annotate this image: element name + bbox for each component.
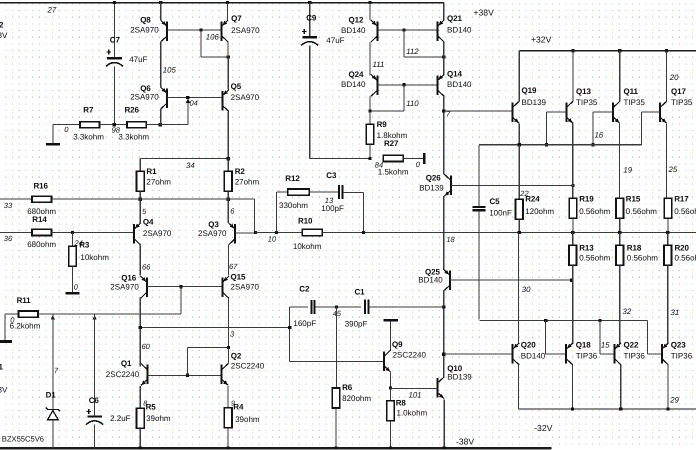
wire Q2 CB box: [187, 348, 189, 376]
svg-text:0.56ohm: 0.56ohm: [675, 254, 696, 263]
transistor Q19 (BD139 NPN): [518, 51, 520, 102]
svg-text:33: 33: [4, 201, 13, 210]
svg-text:R6: R6: [342, 383, 353, 392]
svg-text:106: 106: [206, 33, 220, 42]
wire node line corner down to Q3 base node: [253, 199, 255, 232]
wire node 106 box: [200, 30, 202, 57]
svg-text:Q26: Q26: [426, 174, 441, 183]
junction Q8Q7 base: [200, 29, 203, 32]
junction rail C7: [113, 1, 116, 4]
svg-text:0.56ohm: 0.56ohm: [674, 207, 696, 216]
resistor R11: [5, 313, 18, 315]
svg-text:R2: R2: [235, 167, 246, 176]
wire Q1 emitter to R5: [139, 386, 141, 409]
svg-text:101: 101: [409, 390, 422, 399]
svg-text:R5: R5: [146, 403, 157, 412]
junction Q26 base at R19: [571, 184, 574, 187]
svg-text:R27: R27: [384, 139, 399, 148]
svg-text:R8: R8: [396, 398, 407, 407]
resistor R15: [616, 198, 624, 218]
wire top base bus: [479, 144, 641, 146]
wire bottom base bus: [480, 320, 648, 322]
svg-text:27: 27: [47, 5, 57, 14]
resistor R9: [369, 111, 371, 124]
transistor Q8 (2SA970 PNP): [160, 3, 162, 21]
svg-text:25: 25: [668, 165, 678, 174]
svg-text:BD140: BD140: [341, 80, 366, 89]
junction C1 right: [442, 306, 445, 309]
transistor Q3 (2SA970 PNP): [227, 199, 229, 223]
svg-text:2SA970: 2SA970: [130, 26, 159, 35]
junction node 7: [442, 109, 445, 112]
svg-text:Q2: Q2: [231, 351, 242, 360]
svg-text:8V: 8V: [0, 31, 8, 40]
resistor R24: [518, 145, 520, 200]
wire node45 to R6: [335, 307, 337, 388]
svg-text:TIP36: TIP36: [624, 351, 646, 360]
svg-text:39ohm: 39ohm: [146, 414, 171, 423]
wire Q8 base to Q7 base: [167, 29, 221, 31]
svg-text:C9: C9: [306, 14, 317, 23]
wire Q24 base to Q14 base: [378, 84, 438, 86]
svg-text:BD140: BD140: [418, 276, 443, 285]
junction R4 rail: [227, 446, 230, 449]
wire R14 to Q4 base: [52, 231, 135, 233]
svg-text:16: 16: [595, 131, 604, 140]
svg-text:160pF: 160pF: [293, 319, 316, 328]
svg-text:Q18: Q18: [576, 341, 591, 350]
resistor R7: [80, 122, 100, 128]
junction -32V Q18: [571, 407, 574, 410]
svg-text:27ohm: 27ohm: [146, 178, 171, 187]
wire Q26 emitter to Q25 emitter: [443, 196, 445, 269]
junction C7 bottom: [113, 123, 116, 126]
resistor R14: [0, 231, 32, 233]
wire Q18 collector to -32V: [571, 365, 573, 409]
wire node 111 Q12-Q24: [369, 42, 371, 76]
wire C1 right to node18: [369, 306, 444, 308]
wire Q26 base line: [451, 184, 573, 186]
svg-text:TIP35: TIP35: [671, 98, 693, 107]
svg-text:Q11: Q11: [624, 87, 639, 96]
transistor Q16 (2SA970 PNP): [141, 276, 148, 298]
junction R6 rail: [334, 446, 337, 449]
svg-text:C6: C6: [89, 396, 100, 405]
junction Q2 collector box: [227, 346, 230, 349]
svg-text:BD140: BD140: [447, 26, 472, 35]
transistor Q25 (BD140 PNP): [443, 269, 450, 291]
junction node 04 left: [159, 123, 162, 126]
junction output R17R20: [666, 231, 669, 234]
wire Q13 emitter down to R19: [572, 123, 574, 198]
svg-text:330ohm: 330ohm: [279, 201, 308, 210]
capacitor C9: [309, 3, 311, 37]
junction output R19R13: [571, 231, 574, 234]
wire node 34: [139, 159, 141, 172]
junction R8 rail: [389, 446, 392, 449]
junction node60 at C2: [288, 326, 291, 329]
svg-text:39ohm: 39ohm: [235, 415, 260, 424]
junction rail Q11: [618, 49, 621, 52]
junction arrow node 04: [186, 99, 190, 104]
svg-text:Q9: Q9: [392, 340, 403, 349]
svg-text:820ohm: 820ohm: [342, 394, 371, 403]
transistor Q11 (TIP35 NPN): [619, 51, 621, 102]
svg-text:C2: C2: [299, 284, 310, 293]
resistor R1: [137, 171, 145, 191]
ground at R7: [46, 143, 60, 146]
svg-text:10kohm: 10kohm: [80, 253, 109, 262]
wire Q3 base to output node: [235, 232, 255, 234]
transistor Q22 (TIP36 PNP): [615, 343, 622, 365]
wire Q1 base to Q2 base: [148, 374, 222, 376]
svg-text:R10: R10: [298, 216, 313, 225]
wire Q16 base to Q15 base: [147, 286, 222, 288]
wire Q9 emitter down: [390, 373, 392, 388]
svg-text:+32V: +32V: [531, 35, 552, 45]
svg-text:R18: R18: [627, 244, 642, 253]
junction Q1Q2 base: [186, 374, 189, 377]
wire Q11 base stub: [593, 111, 613, 113]
resistor R19: [569, 198, 577, 218]
junction R12 left: [275, 231, 278, 234]
svg-text:R19: R19: [579, 195, 594, 204]
ground at input: [0, 340, 12, 343]
svg-text:112: 112: [406, 47, 419, 56]
svg-text:R15: R15: [626, 195, 641, 204]
wire +38V top rail: [0, 2, 444, 4]
transistor Q2 (2SC2240 NPN): [228, 348, 230, 364]
wire input ground: [4, 314, 6, 340]
svg-text:0.56ohm: 0.56ohm: [579, 254, 610, 263]
svg-text:R14: R14: [32, 215, 47, 224]
wire node 04 box: [160, 124, 188, 126]
svg-text:TIP36: TIP36: [576, 351, 598, 360]
transistor Q1 (2SC2240 NPN): [141, 364, 148, 386]
svg-text:Q1: Q1: [121, 359, 132, 368]
svg-text:47uF: 47uF: [129, 55, 147, 64]
svg-text:31: 31: [671, 308, 680, 317]
resistor R2: [227, 159, 229, 172]
junction node60 Q16: [139, 326, 142, 329]
svg-text:34: 34: [186, 161, 195, 170]
transistor Q15 (2SA970 PNP): [222, 276, 229, 298]
svg-text:20: 20: [669, 73, 679, 82]
svg-text:R9: R9: [377, 120, 388, 129]
wire driver node to Q20 base: [444, 353, 513, 355]
junction rail Q17: [665, 49, 668, 52]
wire R17 bottom: [667, 218, 669, 232]
resistor R4: [224, 408, 232, 428]
resistor R18: [619, 233, 621, 246]
svg-text:32: 32: [623, 307, 632, 316]
wire R11 node corner up: [180, 287, 182, 314]
port terminal 0 at R27: [423, 153, 425, 164]
svg-text:-38V: -38V: [456, 436, 474, 446]
junction R11 node at base: [179, 285, 182, 288]
svg-text:Q8: Q8: [140, 16, 151, 25]
wire Q17 base corner: [641, 111, 660, 113]
wire Q9 base: [290, 361, 384, 363]
wire port to Q9 collector: [390, 321, 392, 350]
resistor R27: [383, 155, 403, 161]
wire Q19 emitter to bus: [518, 123, 520, 144]
junction rail Q8: [159, 1, 162, 4]
svg-text:R11: R11: [17, 296, 32, 305]
junction R9 top: [368, 109, 371, 112]
svg-text:110: 110: [406, 99, 419, 108]
junction Q12Q21 base: [402, 29, 405, 32]
transistor Q5 (2SA970 PNP): [227, 57, 229, 90]
wire Q10 emitter to rail: [443, 399, 445, 448]
svg-text:Q22: Q22: [624, 341, 639, 350]
junction Q18 base bus: [544, 319, 547, 322]
wire Q23 base corner: [646, 321, 648, 354]
svg-text:105: 105: [163, 66, 177, 75]
svg-text:Q5: Q5: [231, 82, 242, 91]
junction -32V Q22: [619, 407, 622, 410]
capacitor C2: [290, 306, 309, 308]
transistor Q20 (BD140 PNP): [513, 343, 520, 365]
junction node34 Q5: [227, 157, 230, 160]
svg-text:R1: R1: [146, 167, 157, 176]
svg-text:66: 66: [142, 262, 151, 271]
svg-text:390pF: 390pF: [345, 319, 368, 328]
wire -38V bottom rail: [0, 447, 551, 450]
wire node 60 horizontal: [140, 327, 289, 329]
svg-text:30: 30: [522, 285, 531, 294]
svg-text:Q23: Q23: [671, 341, 686, 350]
svg-text:R17: R17: [674, 195, 689, 204]
capacitor C7: [114, 3, 116, 58]
junction Q11 base bus: [591, 143, 594, 146]
resistor R3: [72, 232, 74, 246]
svg-text:2SC2240: 2SC2240: [393, 350, 427, 359]
svg-text:Q21: Q21: [447, 14, 462, 23]
svg-text:TIP35: TIP35: [624, 98, 646, 107]
wire R7-C7-R26: [99, 124, 127, 126]
junction R5 rail: [139, 446, 142, 449]
svg-text:Q24: Q24: [349, 70, 364, 79]
capacitor C6: [94, 314, 96, 415]
junction Q3 base feedback: [254, 231, 257, 234]
resistor R17: [664, 198, 672, 218]
wire R15 bottom: [619, 218, 621, 232]
wire Q2 emitter to R4: [227, 386, 229, 408]
resistor R20: [667, 233, 669, 246]
transistor Q17 (TIP35 NPN): [666, 51, 668, 102]
svg-text:R7: R7: [83, 105, 94, 114]
wire Q20 emitter from output: [518, 233, 520, 343]
svg-text:1.0kohm: 1.0kohm: [397, 408, 428, 417]
svg-text:BD139: BD139: [447, 373, 472, 382]
wire Q12 base to Q21 base: [378, 29, 438, 31]
junction R3 top: [71, 231, 74, 234]
wire C3 down to output line: [362, 193, 364, 233]
svg-text:Q7: Q7: [231, 14, 242, 23]
svg-text:10kohm: 10kohm: [293, 242, 322, 251]
transistor Q18 (TIP36 PNP): [566, 343, 573, 365]
svg-text:120ohm: 120ohm: [525, 207, 554, 216]
svg-text:29: 29: [669, 396, 679, 405]
svg-text:2SA970: 2SA970: [231, 26, 260, 35]
svg-text:Q15: Q15: [231, 273, 246, 282]
wire Q25 base line: [450, 279, 572, 281]
svg-text:8V: 8V: [0, 385, 8, 394]
svg-text:Q19: Q19: [522, 86, 537, 95]
svg-text:C7: C7: [110, 36, 121, 45]
junction Q21 collector node: [442, 55, 445, 58]
svg-text:TIP35: TIP35: [576, 98, 598, 107]
svg-text:3.3kohm: 3.3kohm: [118, 133, 149, 142]
svg-text:0.56ohm: 0.56ohm: [626, 207, 657, 216]
junction rail Q7: [226, 1, 229, 4]
svg-text:+38V: +38V: [474, 7, 495, 17]
svg-text:2SA970: 2SA970: [130, 93, 159, 102]
resistor R5: [137, 408, 145, 428]
transistor Q23 (TIP36 PNP): [662, 343, 669, 365]
transistor Q9 (2SC2240 NPN): [384, 350, 391, 372]
wire Q11 emitter down to R15: [619, 123, 621, 198]
junction R1 bottom node: [139, 198, 142, 201]
svg-text:680ohm: 680ohm: [27, 240, 56, 249]
wire Q20 collector to -32V: [518, 365, 520, 409]
svg-text:Q17: Q17: [671, 87, 686, 96]
svg-text:BZX55C5V6: BZX55C5V6: [2, 434, 44, 443]
svg-text:Q4: Q4: [143, 218, 154, 227]
junction rail Q12: [368, 1, 371, 4]
junction R9 bottom: [368, 157, 371, 160]
wire Q25 collector down: [443, 291, 445, 377]
resistor R6: [332, 388, 340, 408]
svg-text:BD140: BD140: [521, 351, 546, 360]
svg-text:R26: R26: [125, 105, 140, 114]
junction Q9 emitter R8: [389, 386, 392, 389]
wire R7 ground stub: [53, 124, 80, 126]
svg-text:36: 36: [4, 234, 13, 243]
wire C9 corner to R27 node: [310, 157, 370, 159]
svg-text:67: 67: [229, 262, 238, 271]
junction Q10 emitter rail: [443, 446, 446, 449]
svg-text:100nF: 100nF: [489, 209, 512, 218]
transistor Q13 (TIP35 NPN): [572, 51, 574, 102]
junction Q19 emitter bus: [518, 143, 521, 146]
resistor R16: [0, 198, 32, 200]
svg-text:R12: R12: [285, 174, 300, 183]
svg-text:R3: R3: [79, 241, 90, 250]
svg-text:0.56ohm: 0.56ohm: [627, 254, 658, 263]
transistor Q12 (BD140 PNP): [369, 3, 371, 21]
svg-text:45: 45: [333, 309, 342, 318]
svg-text:-32V: -32V: [534, 423, 552, 433]
junction output R15R18: [618, 231, 621, 234]
svg-text:BD140: BD140: [447, 80, 472, 89]
svg-text:47uF: 47uF: [326, 36, 344, 45]
wire Q23 collector to -32V: [667, 365, 669, 409]
resistor R12: [276, 192, 278, 232]
transistor Q21 (BD140 PNP): [443, 3, 445, 21]
junction -32V Q23: [666, 407, 669, 410]
wire node 7 to Q19 base: [444, 110, 513, 112]
junction Q7 collector node: [227, 55, 230, 58]
svg-text:R13: R13: [579, 244, 594, 253]
zener diode D1: [52, 314, 54, 409]
junction driver node Q20 base: [442, 353, 445, 356]
junction Q24Q14 base: [402, 83, 405, 86]
svg-text:C3: C3: [326, 171, 337, 180]
svg-text:0.56ohm: 0.56ohm: [579, 207, 610, 216]
transistor Q26 (BD139 NPN): [444, 174, 451, 196]
svg-text:10: 10: [268, 234, 277, 243]
svg-text:100pF: 100pF: [321, 204, 344, 213]
wire Q17 emitter down to R17: [666, 123, 668, 198]
svg-text:111: 111: [373, 60, 385, 69]
svg-text:D1: D1: [46, 390, 57, 399]
junction output R24: [518, 231, 521, 234]
svg-text:6.2kohm: 6.2kohm: [10, 322, 41, 331]
wire Q6 base to Q5 base: [167, 97, 222, 99]
wire C2-C1 link: [315, 306, 361, 308]
svg-text:18: 18: [446, 235, 455, 244]
svg-text:R4: R4: [233, 402, 244, 411]
svg-text:BD140: BD140: [341, 26, 366, 35]
svg-text:R24: R24: [525, 195, 540, 204]
junction node 45: [335, 306, 338, 309]
svg-text:R16: R16: [34, 182, 49, 191]
resistor R8: [389, 388, 391, 401]
wire R26 to Q6 collector node: [146, 124, 160, 126]
wire output feedback line left: [256, 232, 303, 234]
transistor Q14 (BD140 PNP): [443, 57, 445, 76]
svg-text:Q3: Q3: [208, 220, 219, 229]
svg-text:2SA970: 2SA970: [110, 283, 139, 292]
wire R27 to port: [404, 157, 424, 159]
svg-text:1.5kohm: 1.5kohm: [378, 167, 409, 176]
svg-text:2SA970: 2SA970: [198, 229, 227, 238]
svg-text:R20: R20: [675, 244, 690, 253]
transistor Q6 (2SA970 PNP): [161, 87, 168, 109]
svg-text:3.3kohm: 3.3kohm: [73, 133, 104, 142]
svg-text:19: 19: [623, 165, 632, 174]
junction Q6Q5 base: [186, 96, 189, 99]
wire node 7 vertical: [443, 96, 445, 174]
svg-text:BD139: BD139: [522, 98, 547, 107]
junction rail C9: [308, 1, 311, 4]
svg-text:2SA970: 2SA970: [231, 93, 260, 102]
svg-text:2SA970: 2SA970: [143, 229, 172, 238]
port terminal above Q9: [384, 319, 399, 321]
wire node 110 box: [403, 85, 405, 111]
svg-text:Q13: Q13: [576, 87, 591, 96]
svg-text:C1: C1: [355, 288, 366, 297]
svg-text:2SC2240: 2SC2240: [231, 361, 265, 370]
wire +32V rail: [519, 50, 696, 52]
svg-text:60: 60: [142, 342, 151, 351]
svg-text:2.2uF: 2.2uF: [110, 414, 131, 423]
svg-text:2SC2240: 2SC2240: [106, 370, 140, 379]
junction Q13 base bus: [545, 143, 548, 146]
resistor R13: [572, 233, 574, 246]
wire node 112 box: [403, 30, 405, 57]
svg-text:27ohm: 27ohm: [235, 178, 260, 187]
svg-text:Q12: Q12: [349, 16, 364, 25]
wire Q22 base stub: [599, 321, 601, 354]
transistor Q24 (BD140 PNP): [371, 74, 378, 96]
svg-text:Q20: Q20: [521, 341, 536, 350]
junction arrow C6 top: [92, 315, 96, 320]
resistor R26: [127, 122, 146, 128]
junction arrow D1 top: [51, 315, 55, 320]
